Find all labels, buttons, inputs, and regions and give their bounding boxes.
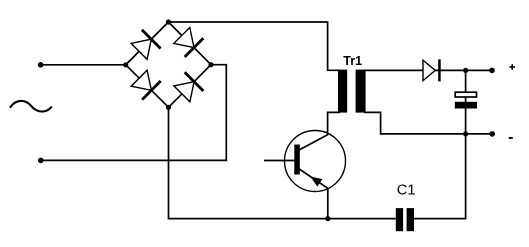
wire AC input top to bridge left node xyxy=(41,64,126,66)
capacitor C2 filter electrolytic positive plate (open) xyxy=(455,92,476,97)
wire bridge bottom node down and bottom rail to C1 xyxy=(169,107,396,218)
wire bridge top node to transformer primary top xyxy=(168,22,340,70)
diode D3 bridge lower-left xyxy=(131,70,161,100)
diode D2 bridge upper-right xyxy=(174,28,204,58)
node bridge left xyxy=(123,62,128,67)
svg-text:Tr1: Tr1 xyxy=(343,54,362,68)
wire filter capacitor branch (plus junction down to minus junction) xyxy=(465,70,467,134)
wire transformer primary bottom to transistor collector xyxy=(300,112,341,149)
terminal AC input bottom xyxy=(38,158,44,164)
wire AC input bottom to corner xyxy=(41,65,227,161)
transistor Q1 base bar xyxy=(294,145,300,175)
node bridge top xyxy=(166,19,171,24)
wire bottom rail C1 to right riser up to minus junction xyxy=(414,134,466,219)
diode D4 bridge lower-right xyxy=(174,72,204,102)
AC source symbol (~) xyxy=(11,101,52,112)
label + xyxy=(509,64,515,70)
node bridge right xyxy=(208,62,213,67)
capacitor C1 left plate xyxy=(396,208,403,231)
transistor Q1 emitter arrow xyxy=(312,177,322,186)
diode D1 bridge upper-left xyxy=(131,30,161,60)
wire bridge arm top-right xyxy=(168,22,211,65)
node bridge bottom xyxy=(166,105,171,110)
terminal minus output xyxy=(489,131,495,137)
label - xyxy=(509,137,513,139)
svg-text:C1: C1 xyxy=(397,182,416,198)
terminal AC input top xyxy=(38,62,44,68)
wire transistor emitter to bottom rail xyxy=(299,169,328,219)
transistor Q1 (PNP) body circle xyxy=(285,131,346,192)
capacitor C1 right plate xyxy=(407,208,414,231)
wire transformer secondary bottom to minus terminal xyxy=(364,112,492,133)
node emitter bottom rail junction xyxy=(325,216,330,221)
transformer Tr1 primary winding bar xyxy=(338,70,347,113)
capacitor C2 filter electrolytic negative plate (filled) xyxy=(455,102,477,109)
node minus rail junction xyxy=(463,131,468,136)
wire bridge arm bottom-right xyxy=(169,65,212,108)
wire bridge arm left-bottom xyxy=(126,65,169,108)
wire transformer secondary top to plus terminal xyxy=(364,69,492,71)
transformer Tr1 secondary winding bar xyxy=(356,70,366,113)
diode D5 output rectifier xyxy=(423,59,441,81)
wire bridge arm left-top xyxy=(126,22,169,65)
terminal plus output xyxy=(489,68,495,74)
node plus rail junction xyxy=(463,68,468,73)
wire transistor base stub xyxy=(264,160,296,162)
